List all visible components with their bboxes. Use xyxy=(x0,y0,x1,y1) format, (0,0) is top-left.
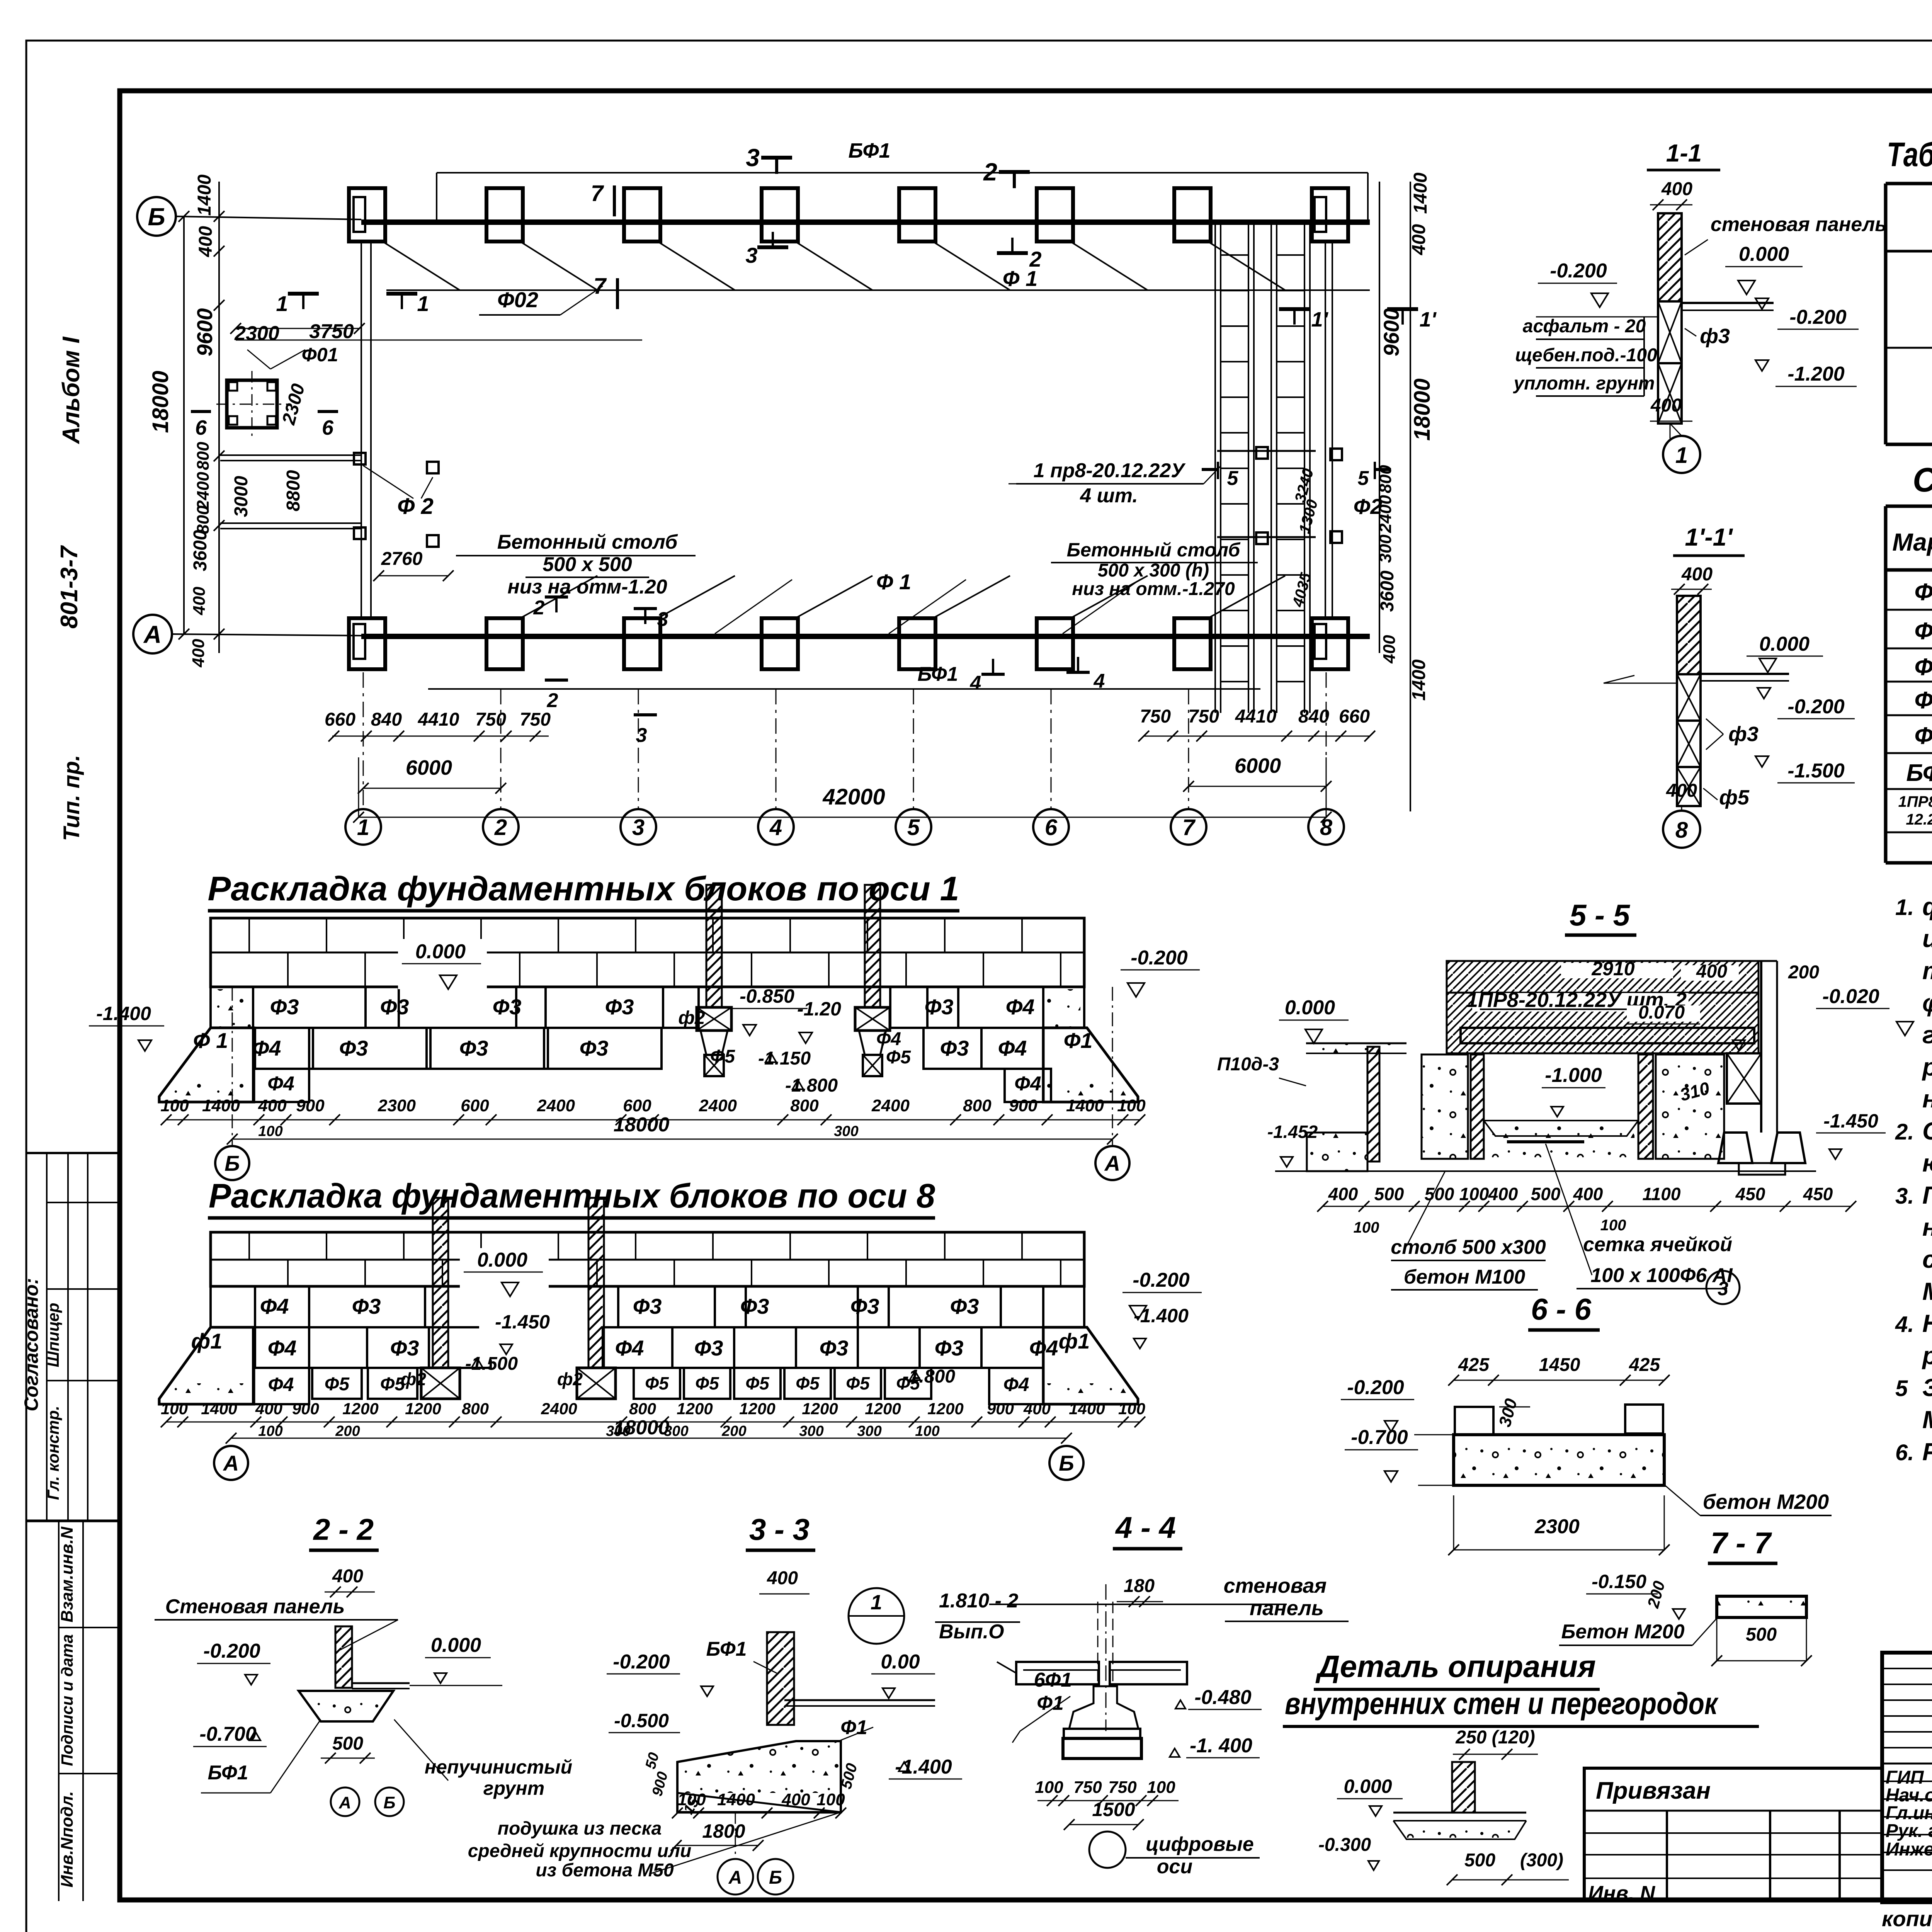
svg-text:1500: 1500 xyxy=(1092,1799,1135,1820)
svg-text:Стеновая панель: Стеновая панель xyxy=(165,1595,345,1618)
svg-text:БФ1: БФ1 xyxy=(706,1638,747,1660)
svg-text:1': 1' xyxy=(1311,308,1329,331)
svg-text:грунт: грунт xyxy=(483,1777,544,1799)
svg-text:100: 100 xyxy=(1354,1219,1379,1236)
svg-text:5: 5 xyxy=(1895,1376,1908,1401)
svg-text:Бетонный столб: Бетонный столб xyxy=(1067,539,1241,561)
svg-text:2300: 2300 xyxy=(234,322,279,345)
svg-text:800: 800 xyxy=(194,442,213,470)
svg-text:3: 3 xyxy=(657,608,668,631)
svg-text:900: 900 xyxy=(987,1400,1014,1418)
svg-text:100: 100 xyxy=(1035,1778,1063,1797)
svg-text:ф3: ф3 xyxy=(1728,723,1759,746)
svg-text:3000: 3000 xyxy=(231,476,252,517)
svg-text:Инв. N: Инв. N xyxy=(1588,1882,1655,1905)
svg-text:400: 400 xyxy=(190,587,209,616)
svg-text:Сборные железобетонные башма: Сборные железобетонные башмаки устанавли… xyxy=(1922,1117,1932,1145)
svg-text:5: 5 xyxy=(1227,467,1239,490)
svg-text:Раскладка фундаментных бл: Раскладка фундаментных блоков по оси 8 xyxy=(209,1177,935,1215)
svg-text:ф1: ф1 xyxy=(1059,1329,1090,1353)
svg-text:100: 100 xyxy=(1459,1184,1489,1204)
svg-text:Ф5: Ф5 xyxy=(695,1373,719,1393)
svg-text:3: 3 xyxy=(745,243,757,267)
svg-text:400: 400 xyxy=(1409,224,1429,255)
svg-text:2400: 2400 xyxy=(541,1400,577,1418)
svg-text:П10д-3: П10д-3 xyxy=(1217,1054,1279,1075)
svg-text:400: 400 xyxy=(1380,635,1399,664)
svg-text:цифровые: цифровые xyxy=(1146,1833,1254,1855)
svg-text:300: 300 xyxy=(857,1423,881,1439)
svg-text:-0.200: -0.200 xyxy=(203,1640,260,1662)
svg-text:Ф4: Ф4 xyxy=(998,1036,1027,1060)
svg-text:Ф4: Ф4 xyxy=(268,1374,294,1395)
svg-text:Вып.О: Вып.О xyxy=(939,1621,1004,1643)
svg-text:1400: 1400 xyxy=(201,1400,237,1418)
svg-text:2300: 2300 xyxy=(378,1096,416,1115)
svg-text:1: 1 xyxy=(1675,443,1688,468)
svg-text:9600: 9600 xyxy=(192,308,217,357)
svg-text:8: 8 xyxy=(1675,818,1688,843)
svg-text:400: 400 xyxy=(1696,961,1727,982)
svg-text:Ф4: Ф4 xyxy=(267,1073,294,1095)
svg-text:оси: оси xyxy=(1157,1855,1192,1878)
svg-text:Ф2: Ф2 xyxy=(1354,494,1383,519)
svg-text:-1.400: -1.400 xyxy=(96,1003,151,1024)
svg-text:Инв.Nподл.: Инв.Nподл. xyxy=(58,1791,77,1887)
svg-text:на отм. -0.020 из слоя: на отм. -0.020 из слоя цементного раство… xyxy=(1922,1213,1932,1241)
svg-text:М 400 с гидрофобными доб: М 400 с гидрофобными добавками . xyxy=(1922,1277,1932,1305)
svg-text:размеры и глубина заложен: размеры и глубина заложения фундаментов … xyxy=(1922,1053,1932,1081)
svg-text:1200: 1200 xyxy=(405,1400,441,1418)
svg-text:800: 800 xyxy=(790,1096,819,1115)
svg-text:-1.800: -1.800 xyxy=(785,1075,838,1096)
svg-text:400: 400 xyxy=(1666,781,1697,801)
svg-text:450: 450 xyxy=(1735,1184,1765,1204)
svg-text:100: 100 xyxy=(1117,1096,1146,1115)
svg-text:4: 4 xyxy=(970,672,981,694)
svg-text:Ф4: Ф4 xyxy=(1003,1374,1029,1395)
svg-text:уплотн. грунт: уплотн. грунт xyxy=(1513,373,1655,394)
svg-text:2400: 2400 xyxy=(194,472,213,510)
svg-text:-1.400: -1.400 xyxy=(895,1756,952,1778)
svg-text:400: 400 xyxy=(332,1566,363,1587)
svg-text:А: А xyxy=(143,621,162,648)
svg-text:42000: 42000 xyxy=(822,784,885,810)
svg-text:Рук. гр.: Рук. гр. xyxy=(1886,1821,1932,1841)
svg-text:0.000: 0.000 xyxy=(477,1249,527,1271)
svg-text:бетон М200: бетон М200 xyxy=(1703,1490,1829,1514)
svg-text:1200: 1200 xyxy=(342,1400,378,1418)
svg-text:Ф4: Ф4 xyxy=(876,1029,901,1049)
svg-text:Ф3: Ф3 xyxy=(380,995,409,1019)
svg-text:БФ1: БФ1 xyxy=(848,139,890,162)
svg-text:Б: Б xyxy=(1059,1451,1074,1475)
svg-text:ются на песчаную подушк: ются на песчаную подушку толщиной 5см. xyxy=(1922,1149,1932,1177)
svg-text:Привязан: Привязан xyxy=(1596,1777,1711,1804)
svg-text:2: 2 xyxy=(533,597,545,619)
svg-text:1: 1 xyxy=(276,291,288,316)
svg-text:1400: 1400 xyxy=(194,174,215,216)
svg-text:200: 200 xyxy=(335,1423,360,1439)
svg-text:-0.200: -0.200 xyxy=(1550,260,1607,282)
svg-text:100: 100 xyxy=(161,1400,188,1418)
svg-text:4: 4 xyxy=(1094,670,1105,692)
svg-text:ф2: ф2 xyxy=(557,1369,583,1389)
svg-text:1400: 1400 xyxy=(717,1790,755,1809)
svg-text:1-1: 1-1 xyxy=(1666,139,1702,167)
svg-text:100: 100 xyxy=(915,1423,939,1439)
svg-text:Ф3: Ф3 xyxy=(493,995,522,1019)
svg-text:300: 300 xyxy=(1376,534,1395,563)
svg-text:-1.20: -1.20 xyxy=(797,998,841,1020)
svg-text:400: 400 xyxy=(1650,395,1682,416)
svg-text:400: 400 xyxy=(767,1568,798,1588)
svg-text:0.000: 0.000 xyxy=(415,940,466,963)
svg-text:500: 500 xyxy=(1531,1184,1561,1204)
svg-text:2: 2 xyxy=(494,815,507,840)
svg-text:1400: 1400 xyxy=(202,1096,240,1115)
svg-text:100: 100 xyxy=(1118,1400,1145,1418)
svg-text:6000: 6000 xyxy=(406,756,452,779)
svg-text:1400: 1400 xyxy=(1069,1400,1105,1418)
svg-text:840: 840 xyxy=(1298,706,1329,727)
svg-text:3 - 3: 3 - 3 xyxy=(749,1512,810,1546)
svg-text:0.070: 0.070 xyxy=(1638,1002,1685,1023)
svg-text:фундаменты запроектированы: фундаменты запроектированы из условия во… xyxy=(1922,893,1932,920)
svg-text:1: 1 xyxy=(871,1591,882,1614)
svg-text:7: 7 xyxy=(591,181,604,206)
svg-text:внутренних стен и перегородок: внутренних стен и перегородок xyxy=(1285,1686,1719,1721)
svg-text:Ф4: Ф4 xyxy=(268,1336,297,1360)
svg-text:400: 400 xyxy=(1328,1184,1358,1204)
svg-text:Раскладка фундаментных блок: Раскладка фундаментных блоков по оси 1 xyxy=(208,869,959,908)
svg-text:Заделку колонн в башмаки: Заделку колонн в башмаки выполнять из бе… xyxy=(1922,1374,1932,1401)
svg-text:Ф3: Ф3 xyxy=(820,1336,849,1360)
svg-text:1200: 1200 xyxy=(802,1400,838,1418)
svg-text:Ф2: Ф2 xyxy=(1915,618,1932,645)
svg-text:100: 100 xyxy=(258,1123,282,1139)
svg-text:Ф5: Ф5 xyxy=(645,1373,669,1393)
svg-text:Деталь опирания: Деталь опирания xyxy=(1315,1649,1596,1684)
svg-text:1200: 1200 xyxy=(677,1400,713,1418)
svg-text:-0.020: -0.020 xyxy=(1822,985,1879,1008)
svg-text:3: 3 xyxy=(746,144,760,172)
svg-text:-0.200: -0.200 xyxy=(1131,947,1188,969)
svg-text:рандбалки , обмазать горя: рандбалки , обмазать горячим битумом за … xyxy=(1922,1342,1932,1369)
svg-text:100: 100 xyxy=(258,1423,282,1439)
svg-text:0.000: 0.000 xyxy=(1344,1776,1392,1797)
svg-text:Ф 2: Ф 2 xyxy=(397,494,434,519)
svg-text:непучинистый: непучинистый xyxy=(425,1756,572,1778)
svg-text:6: 6 xyxy=(322,416,334,439)
svg-text:Ф3: Ф3 xyxy=(940,1036,969,1060)
svg-text:7: 7 xyxy=(1182,815,1196,840)
svg-text:А: А xyxy=(728,1867,742,1888)
svg-text:Тип. пр.: Тип. пр. xyxy=(59,755,84,841)
svg-text:1.: 1. xyxy=(1895,895,1914,920)
svg-text:1400: 1400 xyxy=(1409,659,1429,701)
svg-text:подушка из песка: подушка из песка xyxy=(498,1818,662,1839)
svg-text:100: 100 xyxy=(160,1096,189,1115)
svg-text:5: 5 xyxy=(1358,467,1369,490)
svg-text:100: 100 xyxy=(816,1790,845,1809)
svg-text:750: 750 xyxy=(1073,1778,1102,1797)
svg-text:φ = 26°; Сн= 0.02 кг/см²; Е: φ = 26°; Сн= 0.02 кг/см²; Е = 110 кг/см²… xyxy=(1922,989,1932,1017)
svg-text:300: 300 xyxy=(606,1423,630,1439)
svg-text:400: 400 xyxy=(196,226,216,257)
svg-text:400: 400 xyxy=(781,1790,810,1809)
svg-text:Ф4: Ф4 xyxy=(1915,687,1932,714)
svg-text:-1.400: -1.400 xyxy=(1134,1305,1189,1327)
svg-text:4 - 4: 4 - 4 xyxy=(1115,1510,1176,1544)
svg-text:Ф5: Ф5 xyxy=(710,1046,735,1067)
svg-text:750: 750 xyxy=(475,709,506,730)
svg-text:БФ1: БФ1 xyxy=(208,1762,248,1784)
svg-text:Ф3: Ф3 xyxy=(605,995,634,1019)
svg-text:1400: 1400 xyxy=(1410,172,1431,214)
svg-text:Б: Б xyxy=(224,1151,240,1175)
svg-text:Ф3: Ф3 xyxy=(459,1036,488,1060)
svg-text:4: 4 xyxy=(769,815,782,840)
svg-text:180: 180 xyxy=(1124,1576,1155,1596)
svg-text:900: 900 xyxy=(296,1096,325,1115)
svg-text:Ф4: Ф4 xyxy=(1014,1073,1041,1095)
svg-text:100: 100 xyxy=(1147,1778,1175,1797)
svg-text:Гл. констр.: Гл. констр. xyxy=(44,1406,62,1500)
svg-text:500: 500 xyxy=(1374,1184,1404,1204)
svg-text:-1.452: -1.452 xyxy=(1267,1122,1318,1142)
svg-text:Взам.инв.N: Взам.инв.N xyxy=(58,1526,77,1622)
svg-text:Ф3: Ф3 xyxy=(270,995,299,1019)
svg-text:0.000: 0.000 xyxy=(1739,243,1789,265)
svg-text:4410: 4410 xyxy=(418,709,459,730)
svg-text:2910: 2910 xyxy=(1591,958,1634,980)
svg-text:Ф 1: Ф 1 xyxy=(1003,266,1037,291)
svg-text:3: 3 xyxy=(632,815,645,840)
svg-text:1400: 1400 xyxy=(1066,1096,1104,1115)
svg-text:840: 840 xyxy=(371,709,402,730)
svg-text:Спецификация железобетонных: Спецификация железобетонных элементов xyxy=(1913,461,1932,499)
svg-text:панель: панель xyxy=(1250,1597,1324,1620)
svg-text:600: 600 xyxy=(623,1096,651,1115)
svg-text:-0.200: -0.200 xyxy=(1787,696,1845,718)
svg-text:1450: 1450 xyxy=(1539,1355,1580,1375)
svg-text:750: 750 xyxy=(1188,706,1219,727)
svg-text:их в маловлажных, непучинисты: их в маловлажных, непучинистых , непроса… xyxy=(1922,925,1932,952)
svg-text:400: 400 xyxy=(258,1096,287,1115)
svg-text:3: 3 xyxy=(636,724,647,747)
svg-text:-0.200: -0.200 xyxy=(613,1651,670,1673)
svg-text:Ф1: Ф1 xyxy=(1915,579,1932,605)
svg-text:столб 500 х300: столб 500 х300 xyxy=(1391,1236,1546,1259)
svg-text:асфальт - 20: асфальт - 20 xyxy=(1523,316,1646,337)
svg-text:6Ф1: 6Ф1 xyxy=(1034,1669,1072,1691)
svg-text:300: 300 xyxy=(799,1423,823,1439)
svg-text:300: 300 xyxy=(664,1423,688,1439)
svg-text:0.000: 0.000 xyxy=(1285,997,1335,1019)
svg-text:3600: 3600 xyxy=(1377,570,1398,612)
svg-text:500: 500 xyxy=(1464,1850,1495,1871)
svg-text:Ф3: Ф3 xyxy=(1915,654,1932,680)
svg-text:18000: 18000 xyxy=(148,371,173,433)
svg-text:400: 400 xyxy=(1023,1400,1051,1418)
svg-text:бетон М100: бетон М100 xyxy=(1404,1266,1525,1288)
svg-text:-0.480: -0.480 xyxy=(1194,1686,1252,1709)
svg-text:сетка ячейкой: сетка ячейкой xyxy=(1583,1233,1732,1256)
svg-text:8: 8 xyxy=(1320,815,1333,840)
svg-text:200: 200 xyxy=(1788,962,1819,983)
svg-text:Ф4: Ф4 xyxy=(260,1294,289,1318)
svg-text:-1. 400: -1. 400 xyxy=(1190,1735,1252,1757)
svg-text:Ф5: Ф5 xyxy=(796,1373,820,1393)
svg-text:(300): (300) xyxy=(1520,1850,1563,1871)
svg-text:Ф5: Ф5 xyxy=(846,1373,870,1393)
svg-text:-0.200: -0.200 xyxy=(1133,1269,1190,1291)
svg-text:средней крупности или: средней крупности или xyxy=(468,1841,692,1861)
svg-text:низ на отм-1.20: низ на отм-1.20 xyxy=(507,576,667,598)
svg-text:-0.300: -0.300 xyxy=(1318,1835,1371,1855)
svg-text:500: 500 xyxy=(1746,1624,1777,1645)
svg-text:назначаться в соответствии: назначаться в соответствии со СНиП-П-15-… xyxy=(1922,1085,1932,1113)
svg-text:грунтовых условиях, отличающ: грунтовых условиях, отличающихся от зада… xyxy=(1922,1021,1932,1049)
svg-text:Ф3: Ф3 xyxy=(633,1294,662,1318)
svg-text:Ф5: Ф5 xyxy=(886,1047,911,1068)
svg-text:900: 900 xyxy=(292,1400,319,1418)
svg-text:А: А xyxy=(1104,1151,1120,1175)
svg-text:800: 800 xyxy=(194,505,213,534)
svg-text:1200: 1200 xyxy=(865,1400,901,1418)
svg-text:М „ 200 " на мелком запол: М „ 200 " на мелком заполнителе. xyxy=(1922,1406,1932,1434)
svg-text:400: 400 xyxy=(1661,179,1692,199)
svg-text:БФ1: БФ1 xyxy=(918,663,958,685)
svg-text:Бетон М200: Бетон М200 xyxy=(1561,1621,1685,1643)
svg-text:А: А xyxy=(338,1793,351,1812)
svg-text:801-3-7: 801-3-7 xyxy=(56,545,83,629)
svg-text:750: 750 xyxy=(1140,706,1171,727)
svg-text:400: 400 xyxy=(255,1400,282,1418)
svg-text:Ф3: Ф3 xyxy=(850,1294,879,1318)
svg-text:0.00: 0.00 xyxy=(881,1651,920,1673)
svg-text:Ф3: Ф3 xyxy=(352,1294,381,1318)
svg-text:А: А xyxy=(223,1451,239,1475)
svg-text:4 шт.: 4 шт. xyxy=(1080,485,1138,507)
svg-text:Ф3: Ф3 xyxy=(925,995,954,1019)
svg-text:низ на отм.-1.270: низ на отм.-1.270 xyxy=(1072,579,1235,599)
svg-text:Таблица расчетных нагрузок на: Таблица расчетных нагрузок на верхний об… xyxy=(1887,135,1932,173)
svg-text:2300: 2300 xyxy=(1534,1515,1580,1538)
svg-text:Ф5: Ф5 xyxy=(325,1374,350,1395)
svg-text:Бетонный столб: Бетонный столб xyxy=(497,531,678,553)
svg-text:-1.450: -1.450 xyxy=(1823,1110,1878,1132)
svg-text:200: 200 xyxy=(721,1423,746,1439)
svg-text:5 - 5: 5 - 5 xyxy=(1570,898,1631,932)
svg-text:2400: 2400 xyxy=(537,1096,575,1115)
svg-text:Ф1: Ф1 xyxy=(1064,1028,1093,1053)
svg-text:ф1: ф1 xyxy=(191,1329,223,1353)
svg-text:Ф01: Ф01 xyxy=(302,344,338,366)
svg-text:6: 6 xyxy=(195,416,207,439)
svg-text:1200: 1200 xyxy=(739,1400,775,1418)
svg-text:12.22У: 12.22У xyxy=(1906,811,1932,828)
svg-text:4410: 4410 xyxy=(1235,706,1277,727)
svg-text:Ф3: Ф3 xyxy=(390,1336,419,1360)
svg-text:250 (120): 250 (120) xyxy=(1455,1727,1535,1748)
svg-text:Б: Б xyxy=(148,203,165,231)
svg-text:Инжен.: Инжен. xyxy=(1886,1839,1932,1860)
svg-text:18000: 18000 xyxy=(1410,378,1435,440)
svg-text:ф2: ф2 xyxy=(401,1369,427,1389)
svg-text:660: 660 xyxy=(1339,706,1370,727)
svg-text:Ф02: Ф02 xyxy=(497,287,538,312)
svg-text:2400: 2400 xyxy=(699,1096,737,1115)
svg-text:18000: 18000 xyxy=(614,1114,670,1136)
svg-text:Ф3: Ф3 xyxy=(580,1036,609,1060)
svg-text:-1.150: -1.150 xyxy=(758,1048,811,1069)
svg-text:из бетона М50: из бетона М50 xyxy=(536,1860,674,1881)
svg-text:8800: 8800 xyxy=(283,470,304,511)
svg-text:ф2: ф2 xyxy=(678,1008,705,1028)
svg-text:450: 450 xyxy=(1803,1184,1833,1204)
svg-text:-0.850: -0.850 xyxy=(740,985,794,1007)
svg-text:1100: 1100 xyxy=(1643,1184,1681,1204)
svg-text:660: 660 xyxy=(325,709,355,730)
svg-text:состава 1: 2 толщиной 30: состава 1: 2 толщиной 30 мм на цементе xyxy=(1922,1245,1932,1273)
svg-text:500 х 300 (h): 500 х 300 (h) xyxy=(1098,560,1209,581)
svg-text:1'-1': 1'-1' xyxy=(1685,523,1733,551)
svg-text:2 - 2: 2 - 2 xyxy=(313,1512,374,1546)
svg-text:Ф5: Ф5 xyxy=(1915,723,1932,749)
svg-text:Шпицер: Шпицер xyxy=(44,1303,62,1367)
svg-text:425: 425 xyxy=(1458,1355,1490,1375)
svg-text:-0.200: -0.200 xyxy=(1789,306,1847,328)
svg-text:2: 2 xyxy=(983,158,997,186)
svg-text:-1.500: -1.500 xyxy=(1787,760,1845,782)
svg-text:Подписи и дата: Подписи и дата xyxy=(58,1634,76,1766)
svg-text:3: 3 xyxy=(1718,1278,1728,1299)
svg-text:Ф3: Ф3 xyxy=(950,1294,979,1318)
svg-text:Ф3: Ф3 xyxy=(339,1036,368,1060)
svg-text:2.: 2. xyxy=(1895,1119,1914,1145)
svg-text:Ф4: Ф4 xyxy=(1006,995,1035,1019)
svg-text:1: 1 xyxy=(417,291,429,316)
svg-text:1 пр8-20.12.22У: 1 пр8-20.12.22У xyxy=(1034,459,1186,482)
svg-text:6 - 6: 6 - 6 xyxy=(1531,1292,1592,1326)
svg-text:600: 600 xyxy=(461,1096,489,1115)
svg-text:800: 800 xyxy=(963,1096,992,1115)
svg-text:0.000: 0.000 xyxy=(1759,633,1810,655)
svg-text:500: 500 xyxy=(332,1733,363,1754)
svg-text:ф5: ф5 xyxy=(1719,786,1750,809)
svg-text:7 - 7: 7 - 7 xyxy=(1711,1526,1772,1560)
svg-text:Б: Б xyxy=(383,1793,395,1812)
svg-text:щебен.под.-100: щебен.под.-100 xyxy=(1515,345,1657,366)
svg-text:2400: 2400 xyxy=(871,1096,910,1115)
svg-text:Ф3: Ф3 xyxy=(740,1294,769,1318)
svg-text:-0.150: -0.150 xyxy=(1592,1571,1646,1592)
svg-text:-1.800: -1.800 xyxy=(903,1366,955,1387)
svg-text:400: 400 xyxy=(1488,1184,1518,1204)
svg-text:стеновая панель: стеновая панель xyxy=(1711,213,1887,236)
svg-text:1800: 1800 xyxy=(702,1820,745,1842)
svg-text:-0.700: -0.700 xyxy=(1351,1426,1408,1449)
svg-text:Ф4: Ф4 xyxy=(615,1336,644,1360)
svg-text:-0.500: -0.500 xyxy=(614,1710,669,1731)
svg-text:1: 1 xyxy=(357,815,369,840)
svg-text:Ф4: Ф4 xyxy=(252,1036,281,1060)
svg-text:стеновая: стеновая xyxy=(1224,1574,1327,1597)
svg-text:БФ1: БФ1 xyxy=(1906,760,1932,786)
svg-text:Согласовано:: Согласовано: xyxy=(20,1278,42,1411)
